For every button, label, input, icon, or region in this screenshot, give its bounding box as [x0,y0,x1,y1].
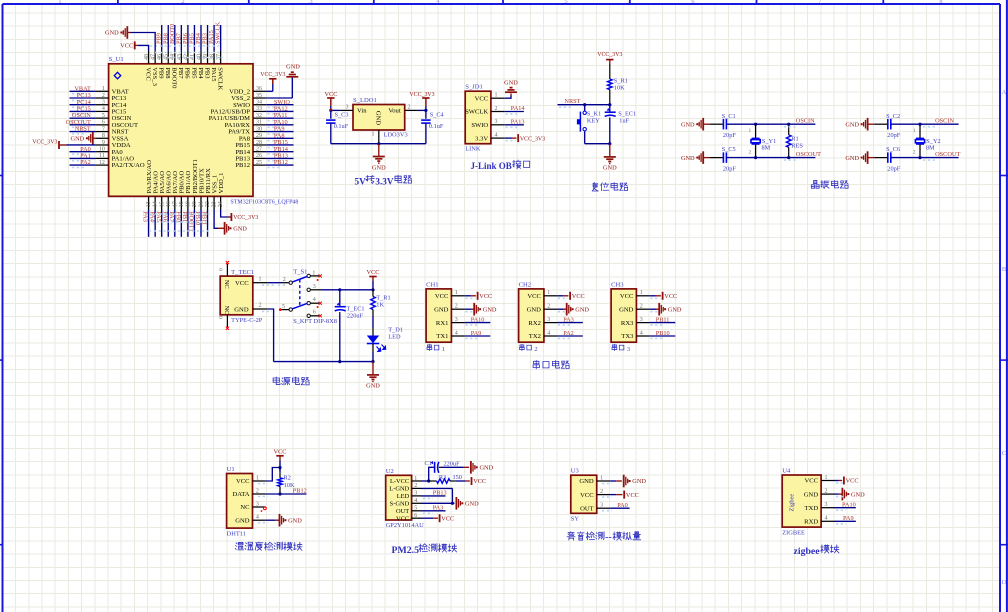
MCU U1 left pin 5 OSCIN [70,112,132,122]
svg-text:VCC: VCC [475,95,489,102]
svg-text:PA7: PA7 [168,211,175,222]
wire zigbee pin2 to GND [835,488,866,501]
svg-text:PA2: PA2 [563,330,574,337]
LDO pin 1 GND name and number [372,111,382,144]
svg-text:1K: 1K [376,301,384,308]
svg-text:VCC: VCC [396,515,409,522]
MCU U1 bottom pin 22 PB11/RX [201,168,212,237]
svg-text:PA6: PA6 [161,211,168,222]
svg-text:GND: GND [804,491,819,498]
title sound detection analog [567,532,641,543]
svg-text:PA13: PA13 [511,118,525,125]
wire J-Link pin3 net PA13 [505,118,525,127]
svg-text:L-VCC: L-VCC [390,478,409,485]
serial CH2 designator [519,281,531,288]
wire sound pin1 to GND [602,475,646,488]
CH1 pin 3 RX1 [436,317,465,327]
capacitor T_EC1 220uF [335,288,365,361]
svg-text:OSCOUT: OSCOUT [935,151,960,158]
svg-text:PA5: PA5 [155,211,162,222]
sound module pin 3 OUT [580,503,610,513]
MCU U1 pin 23 VSS_1 wire to power ground [214,210,247,235]
svg-text:2: 2 [181,0,184,5]
ground GND reset [603,144,617,172]
svg-text:PA0: PA0 [617,502,628,509]
svg-text:GND: GND [288,517,302,524]
MCU U1 left pin 11 PA1/AO [70,153,135,163]
MCU U1 pin 36 wire to VCC_3V3 power bar [260,72,285,91]
svg-text:2: 2 [102,93,105,99]
wire PM2.5 pin2 L-GND down [422,488,453,503]
sound module pin 1 GND [579,475,610,485]
svg-text:3.3V: 3.3V [375,176,393,186]
svg-text:NC: NC [240,504,250,511]
LDO regulator U-LDO1 body [353,105,405,131]
svg-text:GND: GND [483,306,497,313]
svg-text:S_U1: S_U1 [109,56,124,63]
CH2 pin 2 GND [527,304,558,314]
serial CH2 comment label [520,344,538,353]
svg-text:VCC: VCC [236,478,250,485]
zigbee comment ZIGBEE [782,529,805,536]
wire J-Link pin2 net PA14 [505,105,526,114]
svg-text:0: 0 [219,268,225,271]
MCU U1 top pin 41 PB5 [188,25,197,79]
MCU U1 bottom pin 16 PA6/AO [161,171,172,237]
svg-text:DHT11: DHT11 [227,530,246,537]
switch pin3 stub wire to VCC rail [311,289,373,291]
svg-text:RES: RES [791,143,803,150]
svg-text:S_C6: S_C6 [886,146,900,153]
wire PM2.5 pin4 S-GND to ground [422,497,480,510]
svg-text:PA10: PA10 [471,317,485,324]
svg-text:3: 3 [102,100,105,106]
svg-text:12: 12 [99,160,105,166]
svg-text:SY: SY [571,516,580,523]
DHT11 pin3 NC no-ERC mark [261,507,267,512]
power VCC above DHT11 [274,448,287,470]
svg-text:GND: GND [465,501,479,508]
title J-Link OB interface [471,160,530,171]
svg-text:20pF: 20pF [723,132,736,139]
MCU U1 top pin 40 PB4 [195,25,204,79]
svg-text:3: 3 [309,0,312,5]
J-Link comment LINK [465,146,481,153]
svg-text:VCC: VCC [527,293,541,300]
MCU U1 top pin 42 PB6 [182,25,191,79]
MCU U1 bottom pin 18 PB0/AO [174,171,185,237]
crystal S_Y1 8M [749,123,777,160]
zigbee module U4 body [782,475,821,527]
svg-text:RXD: RXD [804,519,818,526]
svg-text:VCC: VCC [846,478,859,485]
MCU U1 comment STM32F103C8T6_LQFP48 [230,199,298,205]
svg-text:2: 2 [408,104,411,110]
zigbee inside rotated label [789,494,796,512]
TYPE-C connector T_TEC1 body [220,276,253,315]
svg-text:TX2: TX2 [529,333,541,340]
TYPE-C comment TYPE-C-2P [231,317,263,324]
svg-text:VCC: VCC [620,293,634,300]
svg-text:1uF: 1uF [619,118,629,125]
svg-text:36: 36 [256,86,262,92]
svg-text:VDD_1: VDD_1 [218,173,225,194]
CH1 pin3 wire net PA10 [465,317,491,326]
svg-text:OSCIN: OSCIN [935,117,954,124]
svg-text:PB4: PB4 [197,67,204,79]
DHT11 designator U1 [227,466,235,473]
capacitor S_C3 0.1uF [326,110,349,143]
LDO designator S_LDO1 [353,97,377,104]
svg-text:U2: U2 [386,468,394,475]
power ground GND at S_C5 [681,151,710,164]
sheet zone letters right margin [1002,89,1007,586]
switch pin1 stub no-ERC [311,274,322,281]
svg-text:PB12: PB12 [274,159,288,166]
serial connector CH2 body [519,289,544,342]
svg-text:GP2Y1014AU: GP2Y1014AU [386,522,424,529]
svg-text:T_R1: T_R1 [376,294,390,301]
wire net OSCOUT [756,151,822,160]
svg-text:S_KFT DIP-8X8: S_KFT DIP-8X8 [293,318,337,325]
svg-text:VCC_3V3: VCC_3V3 [520,136,545,142]
MCU U1 bottom pin 24 VDD_1 [218,173,225,210]
DHT11 pin 4 GND [235,515,266,525]
svg-text:18: 18 [179,201,185,207]
svg-text:5: 5 [282,304,285,310]
MCU U1 left pin 6 OSCOUT [66,119,138,129]
svg-text:PB5: PB5 [190,67,197,79]
MCU U1 left pin 7 NRST [70,126,129,136]
sheet zone ticks top [118,0,883,4]
capacitor S_EC1 1uF polarized [605,105,636,144]
TYPE-C top NC pin with no-ERC cross [219,261,229,276]
svg-text:3.3V: 3.3V [475,135,488,142]
svg-text:TXD: TXD [805,505,819,512]
MCU U1 right pin 35 VSS_2 [231,93,266,102]
PM2.5 pin 6 VCC [396,513,421,522]
sheet zone numbers top (cut off) [58,0,942,5]
MCU U1 bottom pin 13 PA3/RX/AO [142,160,153,237]
svg-text:VCC: VCC [120,42,133,49]
ground GND below LDO [372,144,386,172]
MCU U1 pin 24 VDD_1 wire to VCC_3V3 [221,210,259,222]
serial CH1 designator [426,281,438,288]
pushbutton S_K1 KEY [577,105,601,144]
svg-text:28: 28 [256,140,262,146]
svg-text:7: 7 [102,126,105,132]
MCU U1 top power VCC to pin 48 [120,41,148,50]
svg-text:RX2: RX2 [528,320,540,327]
title power circuit [273,377,309,385]
wire DHT11 pin1 up to VCC [258,466,282,484]
resistor R3 150 and wire PM2.5 pin1 [422,474,466,483]
svg-text:GND: GND [632,478,646,485]
svg-text:VCC: VCC [572,293,585,300]
svg-text:ZIGBEE: ZIGBEE [782,529,805,536]
MCU U1 left pin 10 PA0 [70,146,124,156]
MCU U1 top pin 43 PB7 [175,25,184,79]
svg-text:VCC: VCC [435,293,449,300]
svg-text:VCC: VCC [805,478,819,485]
MCU U1 bottom pin 15 PA5/AO [155,171,166,237]
zigbee pin 3 TXD [805,502,835,512]
svg-text:GND: GND [504,79,518,86]
resistor S_R1 10K [608,64,628,105]
zigbee designator U4 [782,468,791,475]
MCU U1 left pin 8 VSSA [95,133,128,142]
svg-text:KEY: KEY [587,117,600,124]
svg-text:PA2/TX/AO: PA2/TX/AO [112,162,145,169]
wire zigbee pin4 net PA9 [835,515,856,524]
svg-text:CH1: CH1 [426,281,438,288]
svg-text:1: 1 [58,0,61,5]
svg-text:--: -- [605,532,612,543]
MCU bottom dashed ERC marks [149,214,211,231]
wire PM2.5 pin3 LED net PB13 [422,489,447,498]
svg-text:VCC: VCC [441,515,454,522]
svg-text:TYPE-C-2P: TYPE-C-2P [231,317,263,324]
svg-text:OSCOUT: OSCOUT [796,151,821,158]
DHT11 comment [227,530,246,537]
svg-text:S_EC1: S_EC1 [618,110,636,117]
svg-text:GND: GND [105,30,119,37]
svg-text:GND: GND [234,306,249,313]
title serial port circuit [533,360,569,368]
svg-text:24: 24 [218,201,224,207]
svg-text:10: 10 [99,146,105,152]
svg-text:2: 2 [259,303,262,309]
svg-text:PB12: PB12 [293,488,307,495]
svg-text:PB10: PB10 [656,330,670,337]
resistor T_R1 1K [371,290,391,316]
PM2.5 pin 2 L-GND [389,483,421,492]
svg-text:21: 21 [199,201,205,207]
svg-text:3: 3 [346,104,349,110]
svg-text:PM2.5: PM2.5 [392,545,420,556]
svg-text:C1: C1 [425,460,432,467]
zigbee pin 1 VCC [805,475,835,485]
svg-text:GND: GND [375,111,382,126]
MCU U1 pin 9 power VCC_3V3 [32,139,95,149]
svg-text:PA9: PA9 [471,330,482,337]
MCU U1 top power GND to pin 47 [105,26,155,50]
svg-text:NC: NC [223,280,230,289]
MCU U1 left pin 9 VDDA [95,140,130,149]
title crystal circuit [811,180,848,188]
svg-text:23: 23 [212,201,218,207]
svg-text:PA10: PA10 [842,501,856,508]
svg-text:PA2: PA2 [80,159,91,166]
DHT11 pin 2 DATA [232,488,265,498]
serial connector CH1 body [426,289,451,342]
power VCC_3V3 reset [597,52,622,64]
MCU U1 pin 35 wire to GND earth [266,64,300,98]
svg-text:PB13: PB13 [433,489,447,496]
svg-text:S_K1: S_K1 [587,110,601,117]
svg-text:SWCLK: SWCLK [465,109,488,116]
svg-text:PB1: PB1 [181,211,188,222]
MCU U1 right pin 32 PA11/USB/DM [209,112,294,122]
MCU U1 top pin 45 PB8 [162,25,171,79]
PM2.5 designator U2 [386,468,394,475]
MCU U1 left pin 3 PC14 [70,99,127,109]
LDO comment LDO3V3 [384,132,408,139]
svg-text:S_R1: S_R1 [614,77,628,84]
svg-text:S_C2: S_C2 [886,113,900,120]
MCU U1 designator S_U1 [109,56,124,63]
MCU U1 right pin 29 PA8 [239,132,294,142]
LED T_D1 [367,316,403,362]
svg-text:0: 0 [219,316,225,319]
svg-text:LINK: LINK [465,146,481,153]
svg-text:4: 4 [102,106,105,112]
svg-text:VCC_3V3: VCC_3V3 [233,215,258,221]
CH1 pin 1 VCC [435,290,465,300]
serial connector CH3 body [611,289,636,342]
svg-text:15: 15 [159,201,165,207]
svg-text:GND: GND [527,306,542,313]
MCU U1 top pin 38 PA15 [208,25,217,82]
svg-text:PA15: PA15 [210,67,217,82]
MCU U1 right pin 33 PA12/USB/DP [211,106,294,116]
svg-text:R3: R3 [439,474,446,481]
svg-text:SWCLK: SWCLK [216,67,223,90]
MCU U1 bottom pin 23 VSS_1 [211,175,218,210]
wire reset ground rail [585,142,612,145]
power VCC at LDO input [325,91,338,111]
svg-text:VCC: VCC [473,478,486,485]
CH1 pin 4 TX1 [436,330,464,340]
CH3 pin 2 GND [619,304,650,314]
svg-text:OUT: OUT [396,508,409,515]
switch T_S1 S_KFT DIP-8X8 [282,269,337,325]
svg-text:20pF: 20pF [887,165,900,172]
MCU U1 pin 8 power ground GND [71,132,96,145]
MCU U1 right pin 36 VDD_2 [229,86,266,95]
wire sound pin2 to VCC [602,491,639,499]
svg-text:47: 47 [151,54,157,60]
wire J-Link pin4 to VCC_3V3 [505,134,545,142]
svg-text:8: 8 [102,133,105,139]
svg-text:T_TEC1: T_TEC1 [231,269,254,276]
MCU U1 bottom pin 17 PA7/AO [168,171,179,237]
MCU U1 STM32F103C8T6 body [109,64,253,197]
MCU U1 left pin 2 PC13 [70,92,127,102]
wire zigbee pin3 net PA10 [835,501,856,510]
MCU U1 bottom pin 20 PB2/BOOT1 [188,159,199,237]
svg-text:A: A [1002,89,1007,96]
svg-text:Vout: Vout [388,108,401,115]
svg-text:LDO3V3: LDO3V3 [384,132,408,139]
svg-text:8M: 8M [762,144,771,151]
svg-text:VCC: VCC [626,492,639,499]
TYPE-C pin 2 GND wire down [253,303,274,362]
svg-text:GND: GND [434,306,449,313]
svg-text:GND: GND [668,306,682,313]
MCU U1 right pin 30 PA9/TX [228,126,293,136]
capacitor S_C6 20pF [874,146,920,172]
svg-text:PA3: PA3 [433,504,444,511]
resistor R2 10K pull-up [278,468,295,495]
CH3 pin2 wire to GND [650,303,682,316]
MCU U1 right pin 27 PB14 [235,146,293,156]
DHT11 sensor U1 body [227,474,253,529]
CH2 pin1 wire to VCC [557,292,584,300]
J-Link connector S_JD1 body [465,91,491,144]
svg-text:PB8: PB8 [164,67,171,79]
svg-text:VCC: VCC [144,67,151,81]
power ground GND at S_C6 [845,151,874,164]
svg-text:1: 1 [372,131,375,137]
svg-text:30: 30 [256,126,262,132]
svg-text:GND: GND [681,155,695,162]
crystal S_Y2 8M [913,123,941,160]
svg-text:T_D1: T_D1 [388,327,403,334]
svg-text:20pF: 20pF [723,165,736,172]
DHT11 pin 3 NC [240,501,266,511]
wire net OSCIN [920,117,959,126]
svg-text:GND: GND [845,155,859,162]
MCU U1 right pin 28 PB15 [235,139,293,149]
svg-text:NRST: NRST [564,98,580,105]
MCU U1 top pin 37 SWCLK [215,22,224,91]
svg-text:GND: GND [579,478,594,485]
svg-text:220uF: 220uF [444,460,461,467]
svg-text:GND: GND [575,306,589,313]
title reset circuit [592,183,628,191]
svg-text:GND: GND [845,121,859,128]
TYPE-C designator T_TEC1 [231,269,254,276]
svg-text:2: 2 [534,346,537,353]
svg-text:PA14: PA14 [511,105,526,112]
ground GND power circuit [366,362,380,390]
svg-text:VCC: VCC [367,269,380,276]
switch pin5 stub no-ERC [279,308,289,311]
svg-text:RX3: RX3 [621,320,634,327]
J-Link pin 4 3.3V [475,133,505,143]
CH1 pin2 wire to GND [465,303,497,316]
MCU U1 right pin 34 SWIO [233,99,293,109]
svg-text:PA9: PA9 [843,515,854,522]
svg-text:19: 19 [186,201,192,207]
svg-text:48: 48 [144,54,150,60]
MCU U1 bottom pin 14 PA4/AO [148,171,159,237]
svg-text:U1: U1 [227,466,235,473]
svg-text:T_S1: T_S1 [293,269,307,276]
svg-text:VCC_3V3: VCC_3V3 [32,139,57,145]
MCU U1 left pin 1 VBAT [70,85,129,95]
svg-text:GND: GND [233,226,247,233]
serial CH3 designator [611,281,624,288]
svg-text:PB11: PB11 [656,317,670,324]
capacitor S_C5 20pF [710,146,756,172]
svg-text:VSS_3: VSS_3 [151,67,158,86]
svg-text:9: 9 [102,140,105,146]
MCU U1 right pin 31 PA10/RX [225,119,294,129]
svg-text:GND: GND [603,165,617,172]
CH2 pin2 wire to GND [557,303,589,316]
svg-text:D: D [1002,579,1007,586]
svg-text:S-GND: S-GND [390,500,410,507]
svg-text:22: 22 [205,201,211,207]
PM2.5 pin 4 S-GND [390,498,422,507]
wire LDO ground rail [331,142,426,145]
capacitor S_C4 0.1uF [421,110,444,143]
svg-text:PB7: PB7 [177,67,184,79]
wire PM2.5 pin6 VCC power [422,514,455,522]
CH3 pin1 wire to VCC [650,292,677,300]
